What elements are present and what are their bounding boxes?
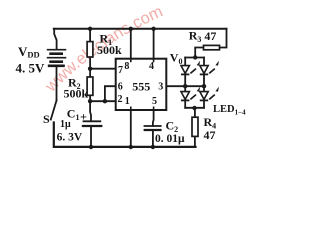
svg-text:1μ: 1μ (60, 119, 71, 130)
wire: LED left col between (184, 74, 186, 91)
wire: R2 bottom to pin2 node (89, 95, 91, 101)
wire: pin8 up to rail (130, 29, 132, 59)
wire: LED right col bottom (203, 100, 205, 107)
node: C1/bottom rail (89, 145, 93, 149)
wire: LED left col bottom (184, 100, 186, 107)
battery VDD plates (47, 50, 67, 66)
wire: R3 right loop from rail end (220, 29, 227, 48)
wire: pin4 up to rail (153, 29, 155, 59)
wire: pin3 to LED middle rail (166, 85, 204, 87)
node: right LED col mid (202, 84, 206, 88)
wire: LED left col anode top (184, 58, 186, 66)
node: pin1/bottom rail (129, 145, 133, 149)
wire: pin1 down to rail (130, 110, 132, 147)
svg-text:S: S (43, 112, 50, 126)
svg-text:6: 6 (118, 82, 123, 93)
IC 555 box U1 (116, 59, 167, 110)
wire: pin2 horizontal (90, 100, 116, 102)
wire: pin5 down to C2 (152, 110, 155, 126)
svg-text:555: 555 (132, 79, 150, 93)
node: pin4/top rail (151, 27, 155, 31)
svg-text:+: + (80, 109, 87, 123)
wire: R1 bottom to R2 top (89, 57, 91, 77)
node: LED bottom rail/R4 (192, 106, 196, 110)
capacitor C2 plates (144, 126, 162, 130)
svg-text:4: 4 (149, 61, 154, 72)
wire: bottom rail to R4 (194, 108, 196, 117)
node: C2/bottom rail (151, 145, 155, 149)
node: pin6 jog (103, 99, 107, 103)
LED D3 (bottom-left) (181, 87, 200, 101)
LED D1 (top-left) (181, 61, 200, 75)
wire: R4 bottom to ground rail (194, 136, 197, 147)
resistor R4 body (192, 117, 198, 136)
wire: top VDD rail (54, 28, 227, 30)
wire: LED bottom rail (185, 107, 204, 109)
svg-text:0. 01μ: 0. 01μ (155, 133, 185, 145)
junction dots (88, 27, 206, 150)
pin stubs inside chip (131, 59, 154, 110)
LED D2 (top-right) (200, 61, 219, 75)
node: R2/C1/pin2 (88, 99, 92, 103)
switch S blade (51, 101, 57, 120)
node: pin3/left LED col (183, 84, 187, 88)
svg-text:3: 3 (158, 82, 163, 93)
svg-text:2: 2 (118, 94, 123, 105)
wire: R3 left to LED top rail (195, 48, 203, 58)
wire: pin6 jog (105, 86, 116, 101)
node: pin8/top rail (129, 27, 133, 31)
svg-text:8: 8 (124, 61, 129, 72)
wire: LED right col between (203, 74, 205, 91)
resistor R2 body (87, 77, 93, 95)
wire: node to C1 top (89, 101, 92, 121)
svg-text:4. 5V: 4. 5V (16, 61, 46, 76)
wire: R1 top (89, 29, 91, 42)
resistor R3 body (204, 45, 220, 49)
svg-text:1: 1 (125, 96, 130, 107)
wire: battery bottom to switch top (56, 67, 58, 101)
wire: pin7 from node (90, 68, 116, 70)
svg-text:7: 7 (118, 65, 123, 76)
resistor R1 body (87, 42, 93, 57)
node: R3/LED top rail (193, 55, 197, 59)
wire: top-left drop to battery (54, 29, 56, 49)
wire: LED right col anode top (203, 58, 205, 66)
node: R1/top rail (88, 27, 92, 31)
node: R1/R2/pin7 (88, 67, 92, 71)
wire: LED top rail (185, 57, 204, 59)
LED D4 (bottom-right) (200, 87, 219, 101)
svg-text:47: 47 (204, 128, 216, 142)
wire: switch bottom to bottom rail (54, 123, 196, 147)
svg-text:500k: 500k (64, 86, 89, 100)
svg-text:47: 47 (204, 29, 216, 43)
wire: C2 bottom to rail (152, 130, 154, 147)
svg-text:6. 3V: 6. 3V (57, 131, 83, 143)
watermark www.elecfans.com (41, 2, 172, 96)
svg-text:500k: 500k (97, 43, 122, 57)
wire: C1 bottom to rail (90, 126, 92, 147)
svg-text:5: 5 (152, 96, 157, 107)
capacitor C1 plates (82, 121, 103, 126)
